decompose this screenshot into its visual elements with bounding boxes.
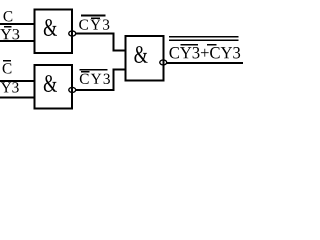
wire U2 output riser up <box>113 69 115 91</box>
nand gate U1 output bubble <box>69 31 76 36</box>
label U2 output CY3 <box>80 74 110 84</box>
bar over C of input C-bar <box>3 60 11 62</box>
wire input Y3 to U2 <box>0 96 35 98</box>
label input C <box>4 11 13 21</box>
bar over Y of top Y3 <box>4 26 12 28</box>
nand gate U1 ampersand <box>44 19 57 36</box>
long overline of U1 output label <box>81 15 106 17</box>
wire into U3 input 2 <box>113 68 126 70</box>
long overline lower of final label <box>169 39 239 41</box>
wire U2 output horizontal <box>76 89 115 91</box>
label input Y3 (lower) <box>1 82 19 92</box>
nand gate U3 ampersand <box>134 46 147 63</box>
label U1 output CY3 <box>79 19 109 29</box>
wire input C-bar to U2 <box>0 80 35 82</box>
wire into U3 input 1 <box>113 50 126 52</box>
wire U1 output horizontal <box>76 33 115 35</box>
label final output CY3+CY3 <box>169 47 240 58</box>
nand gate U2 output bubble <box>69 87 76 92</box>
label input Y3 (Y with bar) <box>0 29 19 39</box>
short bar over Y of U1 output label <box>91 17 100 19</box>
wire input Y3-bar to U1 <box>0 40 35 42</box>
nand gate U3 output bubble <box>160 60 167 65</box>
nand gate U1 (top-left) body <box>35 10 73 53</box>
wire input C to U1 <box>0 23 35 25</box>
wire U1 output riser down <box>113 33 115 51</box>
nand gate U3 (right) body <box>126 36 164 81</box>
nand gate U2 ampersand <box>44 75 57 92</box>
short bar over C of U2 output label <box>81 71 89 72</box>
wire U3 output to right edge <box>167 62 243 64</box>
nand gate U2 (bottom-left) body <box>35 65 73 108</box>
long overline of U2 output label <box>80 69 108 71</box>
long overline upper of final label <box>169 36 239 38</box>
short bar over C of term 2 <box>207 44 216 46</box>
short bar over Y of term 1 <box>181 44 198 46</box>
label input C-bar <box>3 63 12 73</box>
